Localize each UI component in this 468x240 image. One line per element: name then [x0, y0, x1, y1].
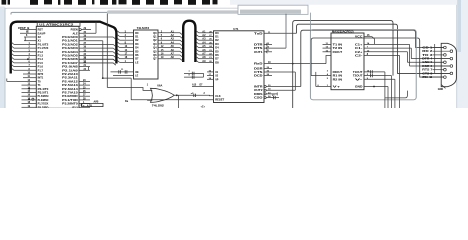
wire T2OUT down: [364, 74, 392, 108]
svg-text:P2.0/A8: P2.0/A8: [62, 65, 78, 69]
driver U3 right labels: [353, 35, 363, 89]
svg-text:T1 IN: T1 IN: [333, 42, 343, 46]
svg-text:INT0: INT0: [38, 72, 44, 76]
top background strip right: [230, 0, 457, 5]
section frame around U3: [310, 30, 416, 100]
svg-text:Q4: Q4: [153, 46, 157, 50]
latch U5 control pins OE LE with capacitor C1: [111, 69, 140, 78]
U1 pin name labels: [38, 28, 79, 110]
op U1 title box: [37, 22, 80, 27]
capacitor C3 pair right of latch: [184, 71, 204, 79]
uart U2 box: [214, 31, 265, 103]
svg-text:P1.5/MOSI: P1.5/MOSI: [38, 94, 49, 98]
svg-text:LE: LE: [135, 60, 139, 64]
latch U5 input pins D0-D7: [117, 31, 139, 65]
svg-text:OUT2: OUT2: [254, 88, 263, 92]
svg-text:D2: D2: [215, 38, 219, 42]
svg-text:R2OUT: R2OUT: [333, 70, 343, 74]
horizontal toolbar rule: [11, 12, 286, 14]
wire VCC pin: [364, 35, 375, 44]
svg-text:RxD: RxD: [254, 62, 263, 66]
uart U2 bottom-right inverted pins: [264, 85, 301, 99]
gray scrollbar bar: [107, 10, 301, 13]
svg-text:Q2: Q2: [153, 38, 157, 42]
svg-text:P0.0/AD0: P0.0/AD0: [62, 35, 78, 39]
left page margin band: [0, 7, 5, 109]
svg-text:P3.0/RXD: P3.0/RXD: [62, 94, 78, 98]
svg-text:OE: OE: [135, 71, 139, 74]
wire V- down: [364, 78, 395, 108]
svg-text:P1.2: P1.2: [38, 50, 44, 54]
svg-text:Q0: Q0: [153, 31, 157, 35]
svg-text:GND: GND: [355, 85, 363, 89]
svg-text:P1.5: P1.5: [38, 61, 44, 65]
svg-text:CD 1: CD 1: [422, 45, 433, 49]
svg-text:P3.3: P3.3: [72, 105, 78, 108]
resistor R1: [82, 103, 104, 106]
uart U2 address pins from bus B2: [196, 30, 219, 64]
U1 P0 port wires to bus B1: [79, 36, 116, 66]
svg-text:ALE: ALE: [73, 31, 78, 35]
svg-text:VP: VP: [215, 78, 219, 81]
bus B2 address-bus arch: [183, 21, 195, 62]
junction dot R1: [81, 104, 83, 106]
capacitor C5 on clock wire: [191, 93, 206, 97]
svg-text:C2-: C2-: [355, 54, 363, 58]
svg-text:P0.7/AD7: P0.7/AD7: [62, 61, 78, 65]
U1 A8 A9 wires to bus: [79, 58, 116, 65]
svg-text:TxD: TxD: [254, 31, 263, 35]
wire GND right: [364, 86, 388, 108]
svg-text:P3.4/T0: P3.4/T0: [38, 87, 49, 91]
wire gate bottom feed: [131, 78, 213, 100]
ground symbol J1: [438, 85, 446, 92]
svg-text:74LS02: 74LS02: [152, 104, 165, 108]
U1 left pins rows13-22: [7, 73, 37, 108]
svg-text:P1.3: P1.3: [38, 54, 44, 58]
svg-text:T2OUT: T2OUT: [353, 74, 363, 78]
svg-text:P2.2/A10: P2.2/A10: [62, 72, 78, 76]
svg-text:P1.7/SCK: P1.7/SCK: [38, 102, 49, 106]
svg-text:CSO: CSO: [254, 96, 263, 100]
svg-text:RESET: RESET: [215, 98, 224, 102]
svg-text:RI 9: RI 9: [422, 75, 433, 79]
wire frame drop v310: [309, 13, 311, 30]
svg-text:D6: D6: [135, 53, 139, 57]
svg-text:Q7: Q7: [153, 57, 157, 61]
svg-text:P3.7/RD: P3.7/RD: [38, 105, 49, 108]
svg-text:RTS 7: RTS 7: [422, 68, 433, 72]
wire AD1 down-route: [79, 39, 103, 78]
left panel border: [4, 8, 6, 109]
svg-text:DCD: DCD: [254, 74, 263, 78]
svg-text:Q6: Q6: [153, 53, 157, 57]
svg-text:D1: D1: [215, 35, 219, 39]
driver U3 box: [331, 33, 364, 90]
right page margin band: [457, 0, 468, 108]
wire C1+ route: [364, 42, 450, 66]
svg-text:RST: RST: [38, 28, 44, 32]
svg-text:P1.0/T2: P1.0/T2: [38, 42, 49, 46]
svg-text:OUT1: OUT1: [254, 50, 263, 54]
svg-text:LE: LE: [135, 75, 138, 78]
wire CTS corner: [264, 70, 295, 72]
svg-text:+C+: +C+: [201, 106, 206, 108]
driver U3 left pins: [323, 42, 343, 88]
or-gate U6A: [151, 88, 175, 102]
svg-text:P2.6/A14: P2.6/A14: [62, 87, 78, 91]
svg-text:4.7K: 4.7K: [87, 104, 92, 107]
wire panel drop v286: [285, 14, 287, 48]
svg-text:DSR 6: DSR 6: [422, 64, 433, 68]
junction gate output: [176, 94, 178, 96]
svg-text:P1.6/MISO: P1.6/MISO: [38, 98, 49, 102]
svg-text:DSR: DSR: [254, 67, 263, 71]
wire RxD up to U3: [326, 56, 331, 64]
bus B1 left/top (P1-P0 bus): [11, 22, 117, 74]
svg-text:D3: D3: [215, 42, 219, 46]
svg-text:X1: X1: [38, 39, 42, 43]
svg-text:D2: D2: [135, 38, 139, 42]
svg-text:P0.2/AD2: P0.2/AD2: [62, 42, 78, 46]
wire U3 R1IN feed: [311, 75, 331, 77]
wire ALE to top bus: [95, 22, 97, 34]
svg-text:AVB: AVB: [94, 100, 99, 103]
U1 left pins rows5-12 from bus B1: [11, 42, 36, 71]
svg-text:R2 IN: R2 IN: [333, 77, 343, 81]
svg-text:P2.5/A13: P2.5/A13: [62, 83, 78, 87]
svg-text:P3.5/T1: P3.5/T1: [38, 91, 49, 95]
uart U2 modem stub pins: [264, 43, 286, 53]
wire net into U2: [192, 86, 214, 88]
svg-text:74LS373: 74LS373: [137, 26, 150, 30]
wire U3 R2IN feed: [316, 72, 331, 87]
tick end DDIS: [276, 92, 278, 95]
latch U5 box: [134, 30, 159, 79]
cropped heading text row: [2, 0, 218, 5]
svg-text:D7: D7: [215, 57, 219, 61]
wire gate bottom input: [148, 99, 153, 102]
mcu U1 box: [36, 26, 79, 108]
svg-text:CLK: CLK: [215, 94, 221, 98]
uart U2 right labels: [254, 31, 263, 99]
svg-text:P3.2/INT0: P3.2/INT0: [62, 102, 78, 106]
svg-text:D3: D3: [135, 42, 139, 46]
svg-text:P1.1/T2X: P1.1/T2X: [38, 46, 49, 50]
wire RxD row: [264, 62, 326, 65]
svg-text:INTR: INTR: [254, 85, 263, 89]
svg-text:A15: A15: [192, 84, 197, 87]
svg-text:GND 5: GND 5: [422, 60, 433, 64]
svg-text:P1.7: P1.7: [38, 68, 44, 72]
svg-text:PSEN: PSEN: [71, 28, 78, 32]
svg-text:INT1: INT1: [38, 76, 44, 80]
svg-text:V+: V+: [333, 85, 342, 89]
svg-text:D5: D5: [215, 49, 219, 53]
connector J1 shell: [441, 43, 456, 86]
U1 right stub pins lower: [79, 80, 90, 108]
gate output wire: [174, 94, 213, 97]
svg-text:D8: D8: [215, 60, 219, 64]
svg-text:DTR: DTR: [254, 42, 263, 46]
svg-text:D4: D4: [135, 46, 139, 50]
svg-text:Q3: Q3: [153, 42, 157, 46]
svg-text:U6A: U6A: [157, 83, 162, 87]
U1 left pins rows1-4 with crystal stubs: [18, 27, 36, 41]
svg-text:VCC: VCC: [355, 35, 363, 39]
wire v107 corner to gate top input: [107, 88, 152, 91]
svg-text:C1+: C1+: [355, 42, 363, 46]
U1 pin PSEN with bubble: [79, 28, 91, 31]
svg-text:P0.1/AD1: P0.1/AD1: [62, 39, 78, 43]
connector J1 pin circles: [444, 46, 453, 78]
wire DSR stub: [264, 67, 272, 69]
svg-text:P2.1/A9: P2.1/A9: [62, 68, 78, 72]
junction AD1: [102, 77, 104, 79]
svg-text:R1OUT: R1OUT: [333, 50, 343, 54]
capacitor C6: [272, 95, 275, 99]
wire C2+ route: [364, 50, 444, 62]
svg-text:C2+: C2+: [355, 50, 363, 54]
content card top border: [5, 8, 238, 10]
uart U2 xtal pins: [207, 70, 219, 81]
wire TxD up-over: [264, 32, 297, 34]
wire J1 column: [434, 44, 436, 73]
svg-text:P0.3/AD3: P0.3/AD3: [62, 46, 78, 50]
wire S4 top: [311, 38, 444, 77]
dropdown box: [238, 5, 308, 14]
U1 P2 stub pair: [79, 65, 90, 71]
wire AD1 horizontal to gate: [103, 77, 131, 79]
svg-text:P2.7/A15: P2.7/A15: [62, 91, 78, 95]
wire S1 top: [293, 21, 393, 108]
svg-text:X2: X2: [38, 35, 42, 39]
svg-text:D4: D4: [215, 46, 219, 50]
latch U5 output pins Q0-Q7 to bus B2: [153, 30, 182, 61]
svg-text:Q1: Q1: [153, 35, 157, 39]
svg-text:V-: V-: [355, 77, 363, 81]
U1 pin ALE wire: [79, 32, 96, 34]
svg-text:D0: D0: [135, 31, 139, 35]
svg-text:D6: D6: [215, 53, 219, 57]
svg-text:Q5: Q5: [153, 49, 157, 53]
svg-text:GND: GND: [438, 88, 444, 91]
wire S3 top: [301, 30, 444, 86]
wire DCD stub: [264, 74, 272, 76]
svg-text:CTS 8: CTS 8: [422, 71, 433, 75]
wire gate output down: [177, 95, 179, 108]
svg-text:P0.6/AD6: P0.6/AD6: [62, 57, 78, 61]
svg-text:C1-: C1-: [355, 46, 363, 50]
svg-text:U71: U71: [233, 27, 239, 31]
svg-text:P1.6: P1.6: [38, 65, 44, 69]
svg-text:EA/VP: EA/VP: [38, 31, 46, 35]
wire CTS vertical: [294, 72, 296, 90]
right scrollbar thumb: [457, 0, 461, 52]
svg-text:DTR 4: DTR 4: [422, 57, 433, 61]
wire C1- route: [364, 47, 450, 59]
svg-text:P0.4/AD4: P0.4/AD4: [62, 50, 78, 54]
svg-text:P3.1/TXD: P3.1/TXD: [62, 98, 78, 102]
svg-text:P0.5/AD5: P0.5/AD5: [62, 54, 78, 58]
svg-text:TD 3: TD 3: [422, 53, 433, 57]
svg-text:P2.4/A12: P2.4/A12: [62, 79, 78, 83]
wire C2- stub: [364, 54, 400, 108]
svg-text:DDIS: DDIS: [254, 92, 263, 96]
dropdown inner bar: [240, 10, 301, 14]
svg-text:P1.4: P1.4: [38, 57, 44, 61]
svg-text:RTS: RTS: [254, 46, 263, 50]
wire AD route vertical v107: [106, 14, 108, 88]
right panel border: [456, 0, 458, 108]
svg-text:T1OUT: T1OUT: [353, 70, 363, 74]
svg-text:D0: D0: [215, 31, 219, 35]
page background: [0, 0, 468, 108]
svg-text:R1 IN: R1 IN: [333, 74, 343, 78]
wire S2 top: [297, 24, 451, 73]
svg-text:RD 2: RD 2: [422, 49, 433, 53]
svg-text:D7: D7: [135, 57, 139, 61]
wire T1OUT down: [364, 70, 385, 108]
svg-text:D1: D1: [135, 35, 139, 39]
svg-text:T2 IN: T2 IN: [333, 46, 343, 50]
svg-text:P2.3/A11: P2.3/A11: [62, 76, 78, 80]
svg-text:D5: D5: [135, 49, 139, 53]
connector J1 pin labels and wires: [422, 45, 450, 79]
svg-text:CTS: CTS: [254, 70, 263, 74]
wire bottom corner: [385, 91, 407, 98]
